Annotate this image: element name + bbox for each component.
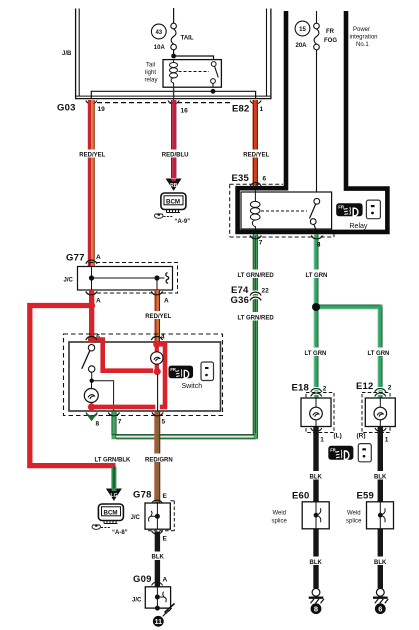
svg-text:LT GRN: LT GRN <box>368 351 390 357</box>
connector row dashed line G03-E82 <box>97 102 231 104</box>
wire RED/YEL G03-19 to G77 pin A <box>88 100 95 267</box>
wire RED/YEL E82-1 to E35 pin 6 <box>253 100 258 186</box>
svg-text:splice: splice <box>272 519 288 525</box>
E12 lamp box <box>365 398 395 427</box>
FR FOG fuse supply wire <box>316 11 318 23</box>
internal bus wire inside J/B <box>91 90 255 92</box>
svg-text:19: 19 <box>98 106 106 113</box>
RED/YEL label (right column) <box>243 150 270 159</box>
svg-text:6: 6 <box>263 176 267 183</box>
fog relay contact <box>310 198 320 234</box>
svg-text:TAIL: TAIL <box>181 35 194 41</box>
G77 pin A bottom-left <box>86 292 101 305</box>
G78 J/C box <box>145 503 170 529</box>
BCM module (A-9) <box>161 193 186 213</box>
wire BLK G78 to G09 <box>155 532 160 587</box>
pin arcs re-stamped over wires <box>86 236 323 416</box>
svg-text:11: 11 <box>155 619 163 626</box>
junction node red tee <box>88 302 95 309</box>
wire BLK E60 to ground <box>313 529 318 589</box>
ground number 11 <box>153 616 164 627</box>
E12 dashed connector outline <box>362 393 390 433</box>
svg-text:5: 5 <box>162 419 166 426</box>
wire RED/YEL G77-A to switch pin 4 <box>155 290 161 342</box>
E12 pin 2 double chevron <box>375 385 392 397</box>
J/B box left double border <box>76 9 80 99</box>
svg-text:15: 15 <box>299 27 306 33</box>
svg-text:LT GRN: LT GRN <box>306 273 328 279</box>
svg-text:2: 2 <box>323 386 327 393</box>
svg-text:4: 4 <box>161 334 165 341</box>
fuse 43 (TAIL 10A) <box>171 23 177 50</box>
svg-text:relay: relay <box>145 78 158 84</box>
BLK label E18 <box>309 471 325 481</box>
svg-text:6: 6 <box>378 605 382 614</box>
svg-text:E82: E82 <box>232 104 250 115</box>
svg-text:“A-9”: “A-9” <box>175 219 191 225</box>
svg-text:20A: 20A <box>296 43 308 49</box>
svg-text:(R): (R) <box>357 433 366 440</box>
G77 internal bus <box>89 267 169 291</box>
svg-text:Switch: Switch <box>182 383 203 390</box>
svg-text:integration: integration <box>350 35 378 41</box>
RED/BLU label <box>161 150 188 159</box>
wire BLK E12 to E59 <box>378 427 383 502</box>
wire LT GRN/RED relay pin7 to switch pin7 <box>112 234 258 439</box>
G77 J/C box <box>78 267 173 291</box>
RED/GRN label <box>145 454 173 464</box>
junction node above tail relay <box>171 54 176 59</box>
switch red circuit path <box>88 336 165 411</box>
BLK label E12 lower <box>374 557 390 567</box>
svg-text:(L): (L) <box>334 433 342 440</box>
svg-text:16: 16 <box>181 108 189 115</box>
svg-text:E59: E59 <box>357 491 375 502</box>
svg-text:E35: E35 <box>232 173 250 184</box>
fog switch icon <box>169 366 194 379</box>
pin 16 <box>168 101 188 115</box>
BLK label E12 <box>374 471 390 481</box>
LT GRN label right lamp <box>367 348 392 358</box>
BLK label G78 <box>151 552 167 561</box>
svg-text:BLK: BLK <box>310 560 323 566</box>
svg-text:BCM: BCM <box>104 509 118 516</box>
svg-text:“A-8”: “A-8” <box>112 530 128 536</box>
G09 chassis ground <box>157 604 174 617</box>
circled 15 <box>295 21 310 36</box>
BLK label E18 lower <box>309 557 325 567</box>
wire RED from G77-A down to switch pin 6 <box>89 290 94 342</box>
svg-text:J/C: J/C <box>132 598 142 604</box>
G77 dashed connector outline <box>90 263 178 294</box>
wire junction to relay contact <box>174 56 214 61</box>
svg-text:G36: G36 <box>231 295 250 306</box>
wire pin5 internal <box>157 374 159 411</box>
E35 dashed connector outline <box>230 184 334 237</box>
svg-text:RED/BLU: RED/BLU <box>162 153 189 159</box>
switch dashed connector outline <box>64 334 223 416</box>
svg-text:1: 1 <box>385 437 389 444</box>
power integration No.1 enclosure with fog relay <box>238 11 388 232</box>
svg-text:E: E <box>163 493 168 500</box>
E18 pin 1 <box>311 428 325 444</box>
E18 lamp box <box>301 398 331 427</box>
E74/G36 pin 22 double chevron <box>250 288 269 301</box>
svg-text:FOG: FOG <box>324 38 337 44</box>
tail light relay contact <box>211 62 219 88</box>
wire RED/BLU pin16 to BCM arrow <box>171 100 176 178</box>
junction node on LT GRN <box>312 303 320 311</box>
switch illumination lamp symbol <box>84 389 98 412</box>
wire fuse 15 to fog relay contact <box>316 50 318 199</box>
svg-text:FR: FR <box>326 29 335 35</box>
svg-text:LT GRN: LT GRN <box>305 351 327 357</box>
G09 internals <box>155 587 166 611</box>
E59 weld splice box <box>367 502 394 529</box>
wire fuse43 to junction <box>173 50 175 56</box>
E60 weld splice box <box>302 502 329 529</box>
E74 G36 connector label <box>231 285 250 306</box>
svg-text:RED/YEL: RED/YEL <box>79 153 105 159</box>
svg-text:1: 1 <box>320 437 324 444</box>
E12 pin 1 <box>375 428 389 444</box>
svg-text:G03: G03 <box>57 103 76 114</box>
switch pin 7 <box>108 413 122 426</box>
E12 bulb <box>374 398 387 427</box>
wire BLK E59 to ground <box>378 529 383 589</box>
switch pin 6 <box>86 334 100 341</box>
Weld splice label E59 <box>346 511 362 525</box>
wire bus down-right to pin 1 <box>255 91 257 99</box>
fog relay connector symbol <box>366 200 380 219</box>
svg-text:G09: G09 <box>133 574 152 585</box>
svg-text:J/C: J/C <box>64 278 74 284</box>
E35 relay pin 7 <box>250 236 263 247</box>
switch pin 5 <box>152 413 166 426</box>
arrow to BCM <box>166 179 182 191</box>
svg-text:1: 1 <box>260 106 264 113</box>
svg-text:G77: G77 <box>66 253 85 264</box>
FR FOG label <box>324 29 337 44</box>
svg-text:light: light <box>145 70 156 76</box>
switch indicator lamp symbol on pin4 branch <box>151 352 163 364</box>
fog relay coil <box>250 186 260 234</box>
connector symbol between E18/E12 <box>358 444 371 462</box>
svg-text:E: E <box>163 536 168 543</box>
junction node on bus <box>211 89 216 94</box>
LT GRN label top <box>305 270 330 280</box>
fuse 43 supply wire <box>173 8 175 23</box>
svg-text:LT GRN/RED: LT GRN/RED <box>238 316 275 322</box>
switch lever contact <box>82 345 114 412</box>
wire tail relay coil to pin 16 <box>173 87 175 100</box>
ground E12 column <box>373 588 388 603</box>
svg-text:RED/GRN: RED/GRN <box>145 458 173 464</box>
svg-text:2: 2 <box>388 385 392 392</box>
switch pin 8 <box>86 413 100 428</box>
wire RED/GRN switch pin5 to G78 <box>154 412 160 504</box>
fuse 15 (FR FOG 20A) <box>314 23 320 50</box>
wire LT GRN branch to E12 <box>316 305 382 398</box>
wire BLK E18 to E60 <box>313 427 318 502</box>
svg-text:BLK: BLK <box>374 560 387 566</box>
G77 pin A bottom-right <box>151 292 169 305</box>
G09 pin A <box>152 577 168 586</box>
fog relay dashed link <box>261 210 307 212</box>
wire LT GRN/BLK to BCM arrow <box>111 467 116 490</box>
pin 1 <box>250 101 264 114</box>
ground E18 column <box>309 588 324 603</box>
svg-text:G78: G78 <box>133 490 152 501</box>
sight symbol + A-8 label <box>92 524 128 536</box>
fog relay icon <box>336 203 362 216</box>
svg-text:splice: splice <box>346 519 362 525</box>
pin 19 <box>86 101 105 114</box>
wire bus down-left to pin 19 <box>90 91 92 99</box>
ground number 6 <box>375 603 386 614</box>
G09 J/C box <box>145 587 170 608</box>
G78 pin E bottom <box>152 531 168 543</box>
svg-text:RED/YEL: RED/YEL <box>145 314 171 320</box>
svg-text:A: A <box>96 298 101 305</box>
wire LT GRN relay pin8 to E18 <box>314 234 319 398</box>
svg-text:Power: Power <box>353 27 370 33</box>
RED/YEL label (to pin 4) <box>145 311 172 320</box>
RED/YEL label <box>79 150 106 159</box>
svg-text:8: 8 <box>317 242 321 249</box>
svg-text:E18: E18 <box>292 383 310 394</box>
svg-text:10A: 10A <box>154 45 166 51</box>
G78 dashed connector outline <box>148 501 174 531</box>
svg-text:No.1: No.1 <box>356 42 369 48</box>
svg-text:8: 8 <box>96 421 100 428</box>
svg-text:7: 7 <box>118 419 122 426</box>
tail light relay box <box>163 60 221 88</box>
BCM module (A-8) <box>98 504 123 524</box>
svg-text:Tail: Tail <box>146 63 155 69</box>
svg-text:LT GRN/RED: LT GRN/RED <box>238 273 275 279</box>
LT GRN/RED label upper <box>237 270 274 280</box>
svg-text:RB: RB <box>170 183 178 189</box>
svg-text:7: 7 <box>259 240 263 247</box>
svg-text:A: A <box>96 254 101 261</box>
svg-text:J/B: J/B <box>62 51 72 57</box>
E35 pin 6 <box>250 176 266 187</box>
Power integration No.1 label <box>350 27 378 48</box>
sight symbol + A-9 label <box>154 213 190 225</box>
svg-text:Weld: Weld <box>273 511 287 517</box>
fog lamp icon between E18/E12 <box>328 446 353 460</box>
svg-text:43: 43 <box>155 30 162 36</box>
svg-text:BCM: BCM <box>166 198 180 205</box>
switch box <box>69 342 221 411</box>
J/B box bottom double border <box>75 96 272 99</box>
thick RED wire loop to bottom-left <box>30 306 116 466</box>
E18 dashed connector outline <box>306 393 334 433</box>
switch connector symbol <box>201 362 214 381</box>
Weld splice label E60 <box>272 511 288 525</box>
J/B box right double border <box>267 9 271 99</box>
fog relay inner box <box>241 192 332 229</box>
G78 internals <box>149 503 160 529</box>
E18 bulb <box>310 398 323 427</box>
svg-text:BLK: BLK <box>310 475 323 481</box>
switch pin 4 <box>151 334 165 341</box>
circled 43 <box>151 24 166 39</box>
svg-text:E60: E60 <box>292 491 310 502</box>
LT GRN/RED label lower <box>237 312 274 322</box>
svg-text:LT GRN/BLK: LT GRN/BLK <box>95 458 132 464</box>
ground number 8 <box>311 603 322 614</box>
tail light relay coil <box>170 60 178 88</box>
LT GRN label left lamp <box>304 348 329 358</box>
svg-text:RED/YEL: RED/YEL <box>243 153 269 159</box>
svg-text:LG: LG <box>111 493 118 499</box>
G78 pin E top <box>152 493 168 504</box>
svg-text:E12: E12 <box>356 381 374 392</box>
svg-text:A: A <box>163 577 168 584</box>
svg-text:22: 22 <box>262 288 270 295</box>
svg-text:Weld: Weld <box>347 511 361 517</box>
svg-text:8: 8 <box>314 605 318 614</box>
illumination output green arrow under pin 8 <box>87 414 98 422</box>
E35 relay pin 8 <box>311 236 322 249</box>
arrow to BCM (A-8) <box>106 489 122 501</box>
svg-text:A: A <box>164 298 169 305</box>
svg-text:Relay: Relay <box>350 223 368 230</box>
G77 pin A top <box>86 254 101 264</box>
svg-text:BLK: BLK <box>152 555 165 561</box>
svg-text:J/C: J/C <box>131 515 141 521</box>
tail light relay dashed link <box>179 71 210 73</box>
svg-text:BLK: BLK <box>374 475 387 481</box>
E18 pin 2 double chevron <box>311 386 327 397</box>
